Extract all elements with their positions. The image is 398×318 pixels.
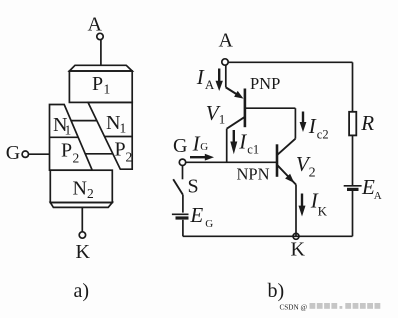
svg-text:c2: c2 (317, 127, 329, 141)
svg-text:1: 1 (65, 123, 72, 138)
svg-text:A: A (205, 77, 215, 92)
svg-text:G: G (200, 141, 208, 153)
svg-text:a): a) (74, 280, 90, 302)
svg-text:CSDN @: CSDN @ (280, 304, 308, 312)
svg-text:A: A (88, 14, 103, 36)
svg-text:2: 2 (309, 165, 316, 180)
svg-text:G: G (6, 142, 20, 164)
svg-text:I: I (192, 132, 201, 156)
svg-text:N: N (73, 178, 87, 200)
svg-text:K: K (76, 241, 91, 263)
svg-text:S: S (188, 176, 199, 198)
svg-text:G: G (173, 135, 187, 157)
svg-text:G: G (205, 218, 213, 230)
svg-text:2: 2 (87, 186, 94, 201)
svg-text:A: A (219, 30, 234, 52)
svg-text:I: I (196, 65, 205, 89)
svg-text:2: 2 (126, 150, 133, 165)
svg-text:R: R (360, 111, 374, 135)
svg-text:K: K (318, 203, 328, 218)
svg-text:2: 2 (73, 151, 80, 166)
svg-text:c1: c1 (247, 143, 259, 157)
svg-text:NPN: NPN (237, 164, 270, 183)
svg-text:A: A (374, 190, 382, 202)
svg-text:PNP: PNP (250, 74, 280, 93)
svg-text:I: I (308, 114, 317, 138)
svg-text:P: P (115, 139, 126, 161)
svg-text:b): b) (268, 280, 285, 302)
svg-text:P: P (61, 140, 72, 162)
svg-text:N: N (106, 112, 120, 134)
svg-text:1: 1 (120, 121, 127, 136)
svg-text:K: K (291, 239, 306, 261)
svg-text:P: P (92, 73, 103, 95)
svg-text:1: 1 (104, 82, 111, 97)
svg-text:E: E (189, 203, 203, 227)
svg-text:1: 1 (219, 112, 226, 127)
svg-text:I: I (238, 130, 247, 154)
